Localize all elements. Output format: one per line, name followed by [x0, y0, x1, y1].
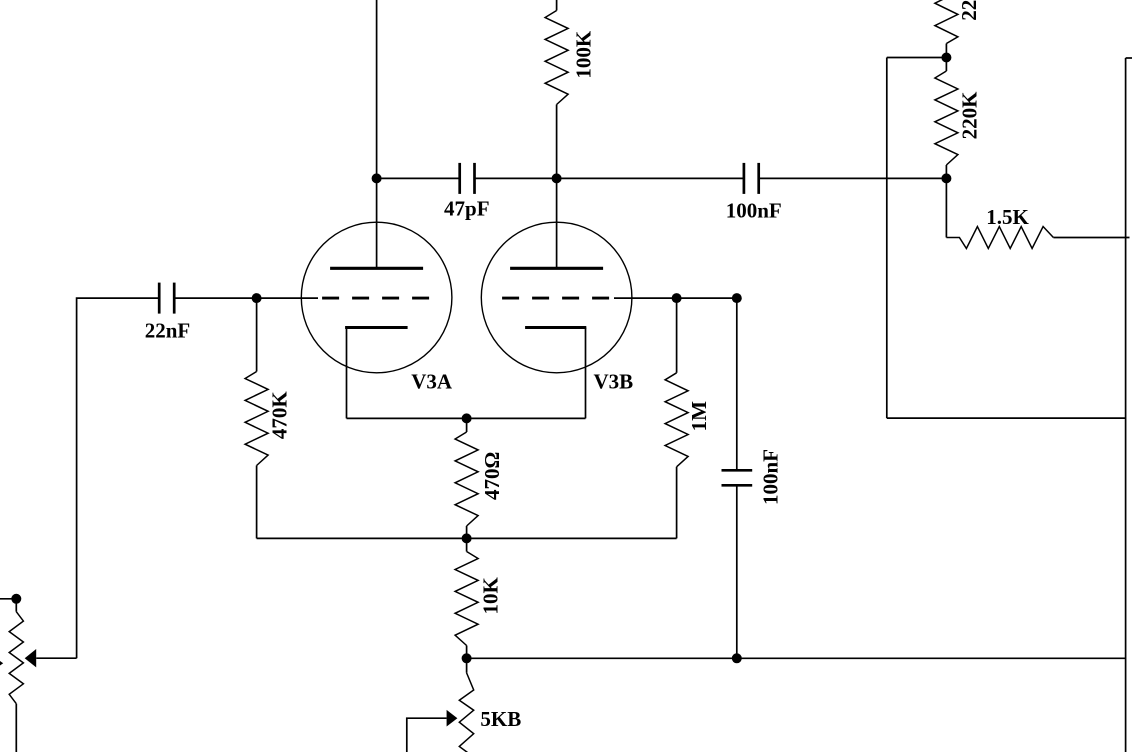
junction node 10K / 5KB / bus	[462, 653, 472, 663]
triode V3A anode bar	[330, 267, 423, 270]
resistor 1.5K (horizontal)	[946, 227, 1053, 249]
wire: V3A plate feed from top edge down to plate	[376, 0, 378, 268]
svg-text:470Ω: 470Ω	[480, 452, 504, 500]
wire: 470R bottom lead	[466, 526, 468, 538]
wire: 100K bottom lead through node down to V3B plate	[556, 105, 558, 269]
svg-text:100K: 100K	[572, 30, 596, 78]
triode V3B envelope	[481, 222, 632, 373]
wire: 220K second top lead	[945, 58, 947, 72]
svg-text:5KB: 5KB	[480, 707, 521, 731]
svg-text:22nF: 22nF	[145, 318, 191, 342]
junction node V3A grid	[252, 293, 262, 303]
junction node volume pot top	[11, 594, 21, 604]
wire: volume pot bottom lead	[15, 704, 17, 752]
svg-text:100nF: 100nF	[726, 198, 782, 222]
wire: 100nF to 220K divider node	[759, 177, 947, 179]
wire: right bus vertical	[1125, 58, 1127, 752]
wire: node row1 from V3A plate to 47pF left plate	[377, 177, 460, 179]
wire: 470K bottom lead to row4 corner	[256, 466, 258, 539]
wire: cathode bus between tubes	[347, 417, 586, 419]
junction node 100nF bypass bottom	[732, 653, 742, 663]
wire: input from left edge corner	[77, 298, 160, 658]
svg-text:470K: 470K	[268, 391, 292, 440]
junction node 220K divider bottom	[941, 173, 951, 183]
junction node at 220K divider top	[941, 53, 951, 63]
wire: feedback branch vertical down	[886, 58, 888, 419]
svg-text:V3A: V3A	[411, 369, 453, 393]
capacitor 22nF	[159, 283, 174, 314]
wire: 220K top resistor bottom lead	[945, 44, 947, 58]
capacitor 47pF	[460, 163, 475, 194]
resistor 220K (second, vertical)	[935, 71, 958, 165]
svg-text:100nF: 100nF	[758, 449, 782, 505]
resistor 100K (top, vertical)	[545, 11, 568, 105]
wire: V3B grid lead out to 1M node	[614, 297, 737, 299]
wire: divider node left to feedback branch	[887, 57, 947, 59]
wire: bottom bus row5	[467, 657, 1126, 659]
junction node V3B grid / 1M	[672, 293, 682, 303]
wire: 10K bottom lead	[466, 646, 468, 659]
wire: 22nF to V3A grid node	[174, 297, 256, 299]
svg-text:220K: 220K	[957, 0, 981, 21]
wire: 470K top lead	[256, 298, 258, 371]
wire: 10K top lead	[466, 538, 468, 551]
svg-text:1M: 1M	[687, 401, 711, 432]
junction node V3B plate / caps	[552, 173, 562, 183]
wire: row4 bus 470K corner to 1M corner	[257, 537, 677, 539]
svg-text:47pF: 47pF	[444, 196, 490, 220]
wire: volume pot top lead	[15, 599, 17, 612]
resistor 470R (cathode, vertical)	[455, 432, 478, 526]
wire: 1.5K right lead to right bus	[1053, 237, 1129, 239]
wire: 220K second bottom lead	[945, 165, 947, 178]
wire: 47pF right plate to V3B plate node	[475, 177, 557, 179]
wire: 470R top lead	[466, 418, 468, 432]
wire: stub from left edge to volume pot top	[0, 598, 16, 600]
volume pot wiper arrow	[25, 649, 37, 667]
potentiometer 5KB body	[459, 673, 473, 752]
wire: feedback branch horizontal to right bus	[887, 417, 1126, 419]
wire: wiper to input corner	[36, 657, 76, 659]
wire: V3B plate node to 100nF coupling cap	[557, 177, 744, 179]
svg-text:10K: 10K	[479, 576, 503, 614]
triode V3A envelope	[301, 222, 452, 373]
svg-text:V3B: V3B	[593, 369, 633, 393]
triode V3B anode bar	[510, 267, 603, 270]
junction node 100nF bypass top	[732, 293, 742, 303]
wire: 1M top lead	[676, 298, 678, 373]
wire: 1M bottom lead to row4 corner	[676, 467, 678, 539]
capacitor 100nF (bypass, vertical)	[722, 298, 753, 658]
triode V3A cathode bar	[345, 326, 408, 329]
wire: grid lead into V3A	[257, 297, 318, 299]
junction node row4	[462, 533, 472, 543]
resistor 220K (top right, cut off at top)	[935, 0, 958, 44]
wire: right bus top stub to right edge	[1126, 57, 1132, 59]
wire: 5KB top lead	[466, 658, 468, 672]
stub at left edge	[0, 661, 3, 666]
wire: 100K top lead to top edge	[556, 0, 558, 11]
triode V3B grid (dashed)	[502, 297, 609, 300]
wire: V3B cathode lead down	[585, 328, 587, 419]
wire: node row1 right down to 1.5K corner	[945, 178, 947, 237]
junction node V3A plate / 47pF	[372, 173, 382, 183]
svg-text:1.5K: 1.5K	[986, 205, 1029, 229]
triode V3B cathode bar	[525, 326, 586, 329]
resistor 1M (vertical)	[665, 373, 688, 467]
wire: V3A cathode lead down	[346, 328, 348, 419]
5KB wiper arrow	[447, 710, 458, 727]
capacitor 100nF (coupling, horizontal)	[744, 163, 759, 194]
junction node cathode bus	[462, 413, 472, 423]
resistor 10K (vertical)	[455, 552, 478, 646]
triode V3A grid (dashed)	[322, 297, 429, 300]
resistor 470K (vertical)	[245, 372, 268, 466]
wire: 5KB wiper lead	[407, 718, 447, 752]
potentiometer (left) body	[9, 612, 23, 704]
svg-text:220K: 220K	[958, 91, 982, 140]
